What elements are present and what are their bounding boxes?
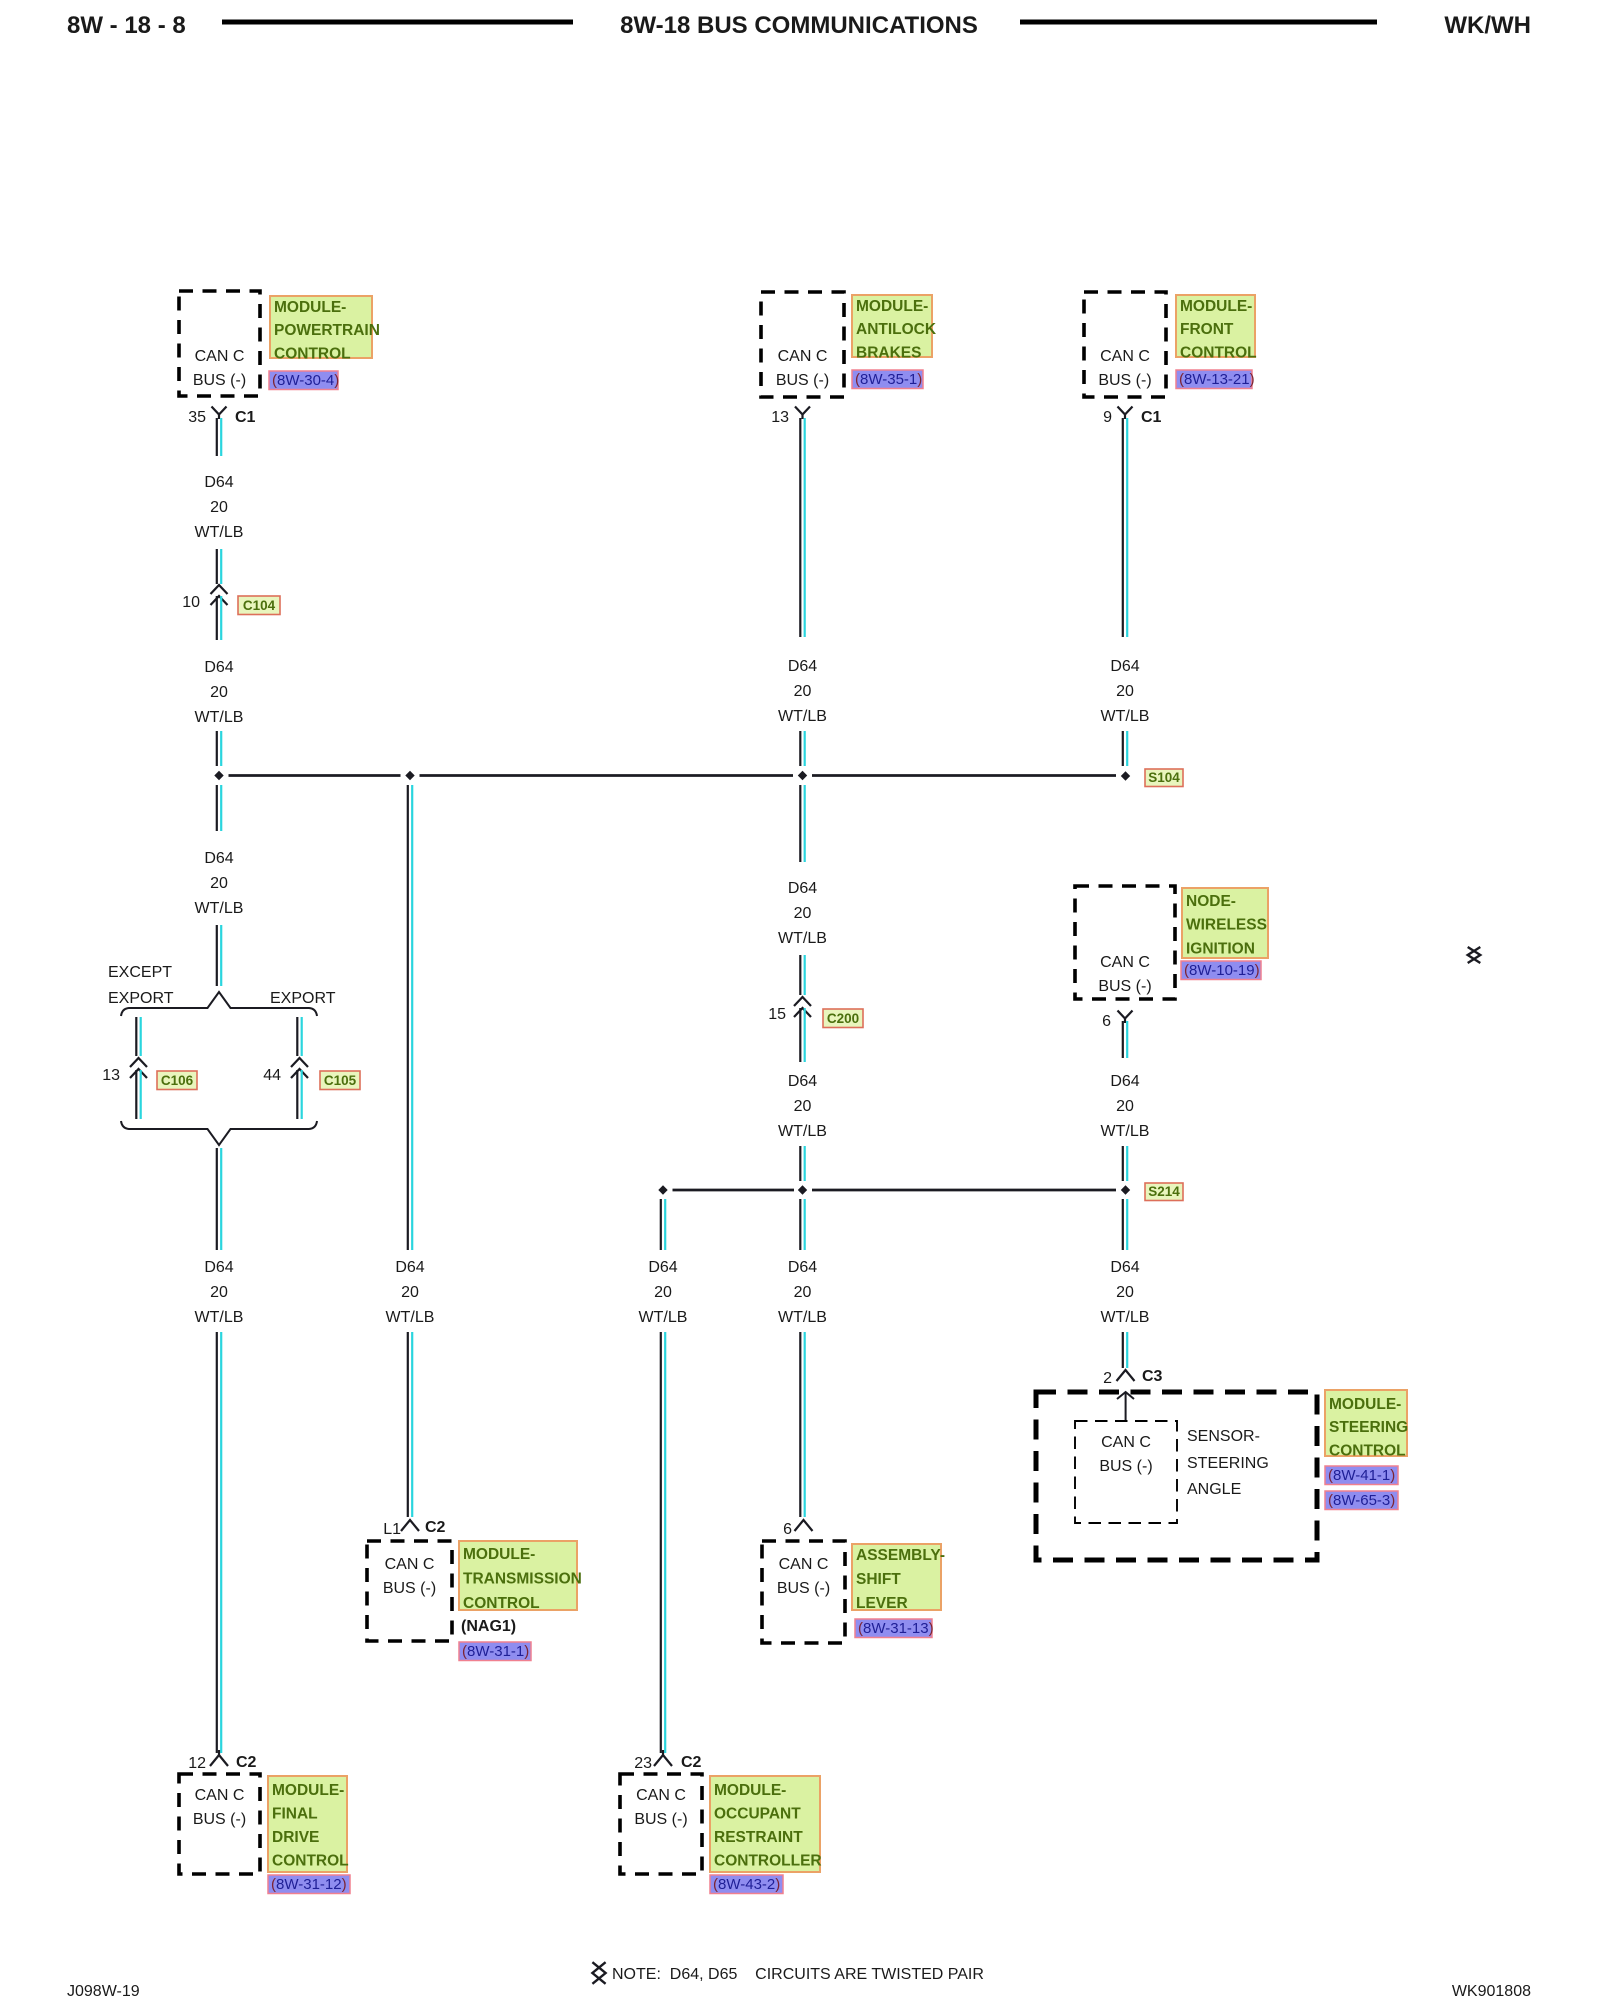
svg-text:WT/LB: WT/LB — [195, 1309, 244, 1326]
svg-text:C105: C105 — [324, 1073, 357, 1088]
splice junction node on S104 bus at col3 — [798, 771, 807, 780]
text CAN C BUS (-) in module TCM — [383, 1556, 436, 1597]
connector tag C200 — [823, 1009, 863, 1028]
svg-text:EXCEPT: EXCEPT — [108, 964, 172, 981]
svg-text:CAN C: CAN C — [195, 1787, 245, 1804]
reference label (8W-43-2) — [710, 1875, 783, 1894]
wire col1 seg7: merge to label (twisted pair D64) — [217, 1148, 221, 1250]
svg-text:23: 23 — [634, 1755, 652, 1772]
text CAN C BUS (-) in module FDCM — [193, 1787, 246, 1828]
svg-text:FINAL: FINAL — [272, 1806, 318, 1823]
svg-text:DRIVE: DRIVE — [272, 1829, 319, 1846]
svg-text:C2: C2 — [681, 1754, 702, 1771]
arrow from C3 into sensor-steering angle — [1117, 1392, 1134, 1421]
svg-text:MODULE-: MODULE- — [463, 1546, 535, 1563]
svg-text:C104: C104 — [243, 598, 276, 613]
wire col2 seg2: label to TCM connector (twisted pair D64) — [408, 1332, 412, 1517]
svg-text:WT/LB: WT/LB — [195, 900, 244, 917]
text CAN C BUS (-) in module PCM — [193, 348, 246, 389]
module steering control: outer dashed box — [1036, 1392, 1317, 1560]
wire branch EXCEPT EXPORT lower (twisted pair D64) — [136, 1070, 140, 1119]
module FDCM: dashed box MODULE-FINAL DRIVE CONTROL — [179, 1774, 260, 1874]
reference label (8W-31-13) — [855, 1619, 934, 1638]
svg-text:12: 12 — [188, 1755, 206, 1772]
svg-text:CAN C: CAN C — [778, 348, 828, 365]
wire col4 seg6: label to C3 (twisted pair D64) — [1123, 1332, 1127, 1368]
label MODULE-FRONT CONTROL — [1176, 295, 1257, 361]
svg-text:CAN C: CAN C — [385, 1556, 435, 1573]
wire col1 seg3: C104 to label (twisted pair D64) — [217, 596, 221, 640]
splice junction node on S214 bus at col3b — [658, 1185, 667, 1194]
connector tag C104 — [238, 596, 280, 615]
wire value label col1 lower: D64 20 WT/LB — [195, 850, 244, 917]
svg-text:(8W-31-13): (8W-31-13) — [858, 1620, 934, 1637]
connector symbol connector C2 of FDCM — [210, 1750, 228, 1766]
svg-text:S214: S214 — [1148, 1184, 1180, 1199]
svg-text:WT/LB: WT/LB — [1101, 708, 1150, 725]
svg-text:20: 20 — [1116, 1284, 1134, 1301]
label MODULE-FINAL DRIVE CONTROL — [268, 1776, 349, 1872]
in-line connector symbol in-line connector C106 — [130, 1058, 147, 1067]
wire value label col4 mid: D64 20 WT/LB — [1101, 1073, 1150, 1140]
svg-text:BUS (-): BUS (-) — [193, 1811, 246, 1828]
label ASSEMBLY-SHIFT LEVER — [852, 1544, 945, 1612]
svg-text:20: 20 — [794, 683, 812, 700]
wire value label col4 upper: D64 20 WT/LB — [1101, 658, 1150, 725]
svg-text:MODULE-: MODULE- — [1180, 298, 1252, 315]
wire value label col3 mid: D64 20 WT/LB — [778, 880, 827, 947]
svg-text:NODE-: NODE- — [1186, 893, 1236, 910]
svg-text:STEERING: STEERING — [1187, 1455, 1269, 1472]
connector tag C105 — [320, 1071, 360, 1090]
svg-text:D64: D64 — [788, 1259, 817, 1276]
svg-text:IGNITION: IGNITION — [1186, 940, 1255, 957]
svg-text:BUS (-): BUS (-) — [1099, 1458, 1152, 1475]
svg-text:13: 13 — [102, 1067, 120, 1084]
wire col3b seg2: label to ORC connector (twisted pair D64) — [661, 1332, 665, 1753]
label MODULE-POWERTRAIN CONTROL — [270, 296, 380, 362]
svg-text:D64: D64 — [1110, 1259, 1139, 1276]
text CAN C BUS (-) in node wireless ignition — [1098, 954, 1151, 995]
wire col3 seg4: label to C200 (twisted pair D64) — [800, 955, 804, 995]
svg-text:BUS (-): BUS (-) — [193, 372, 246, 389]
wire value label col1 mid: D64 20 WT/LB — [195, 659, 244, 726]
svg-text:CONTROL: CONTROL — [463, 1595, 540, 1612]
reference label (8W-31-1) — [459, 1642, 531, 1661]
svg-text:D64: D64 — [204, 659, 233, 676]
wire value label col3 lower: D64 20 WT/LB — [778, 1073, 827, 1140]
connector symbol connector C2 of TCM — [401, 1520, 419, 1531]
connector symbol connector of shift lever assembly — [795, 1520, 813, 1531]
svg-text:WK/WH: WK/WH — [1444, 12, 1531, 39]
svg-text:C1: C1 — [235, 409, 256, 426]
svg-text:(8W-30-4): (8W-30-4) — [272, 372, 339, 389]
wire value label col3b: D64 20 WT/LB — [639, 1259, 688, 1326]
svg-text:6: 6 — [1102, 1013, 1111, 1030]
wire col3 seg5: C200 to label (twisted pair D64) — [800, 1008, 804, 1062]
splice junction splice S214 — [1121, 1185, 1130, 1194]
splice junction node on S214 bus at col3 — [798, 1185, 807, 1194]
svg-text:8W-18 BUS COMMUNICATIONS: 8W-18 BUS COMMUNICATIONS — [620, 12, 978, 39]
svg-text:WT/LB: WT/LB — [639, 1309, 688, 1326]
svg-text:WT/LB: WT/LB — [195, 524, 244, 541]
wire col4 seg3: WIN to label (twisted pair D64) — [1123, 1021, 1127, 1058]
text CAN C BUS (-) in module ORC — [634, 1787, 687, 1828]
wire col4 seg2: label to S104 (twisted pair D64) — [1123, 731, 1127, 766]
svg-text:SENSOR-: SENSOR- — [1187, 1428, 1260, 1445]
wire col3 seg3: S104 to label (twisted pair D64) — [800, 785, 804, 862]
connector symbol connector C3 of steering control — [1117, 1370, 1135, 1381]
wire branch EXPORT lower (twisted pair D64) — [297, 1070, 301, 1119]
wire col1 seg2: label to C104 (twisted pair D64) — [217, 549, 221, 584]
svg-text:CAN C: CAN C — [779, 1556, 829, 1573]
svg-text:BUS (-): BUS (-) — [777, 1580, 830, 1597]
svg-text:WT/LB: WT/LB — [1101, 1123, 1150, 1140]
svg-text:RESTRAINT: RESTRAINT — [714, 1829, 803, 1846]
svg-text:8W - 18 - 8: 8W - 18 - 8 — [67, 12, 186, 39]
svg-text:(8W-41-1): (8W-41-1) — [1328, 1467, 1395, 1484]
svg-text:15: 15 — [768, 1006, 786, 1023]
svg-text:CAN C: CAN C — [195, 348, 245, 365]
sensor steering angle: inner dashed box — [1075, 1421, 1177, 1523]
reference label (8W-30-4) — [269, 371, 339, 390]
svg-text:WT/LB: WT/LB — [386, 1309, 435, 1326]
bus wire S104 horizontal segment 2 — [420, 774, 794, 777]
svg-text:20: 20 — [210, 875, 228, 892]
svg-text:(8W-10-19): (8W-10-19) — [1184, 962, 1260, 979]
label NODE-WIRELESS IGNITION — [1182, 888, 1268, 958]
svg-text:C2: C2 — [236, 1754, 257, 1771]
bus wire S214 horizontal segment 2 — [812, 1189, 1116, 1192]
svg-text:D64: D64 — [788, 880, 817, 897]
wire col3 seg2: label to S104 (twisted pair D64) — [800, 731, 804, 766]
svg-text:20: 20 — [1116, 1098, 1134, 1115]
svg-text:MODULE-: MODULE- — [714, 1782, 786, 1799]
svg-text:(8W-13-21): (8W-13-21) — [1179, 371, 1255, 388]
svg-text:CONTROL: CONTROL — [274, 345, 351, 362]
text CAN C BUS (-) in module FCM — [1098, 348, 1151, 389]
reference label (8W-31-12) — [268, 1875, 350, 1894]
svg-text:(8W-43-2): (8W-43-2) — [713, 1876, 780, 1893]
wire col4 seg5: S214 to label (twisted pair D64) — [1123, 1199, 1127, 1250]
svg-text:MODULE-: MODULE- — [856, 298, 928, 315]
wire value label col4 bottom: D64 20 WT/LB — [1101, 1259, 1150, 1326]
svg-text:20: 20 — [210, 499, 228, 516]
svg-text:20: 20 — [210, 1284, 228, 1301]
wire branch EXCEPT EXPORT upper (twisted pair D64) — [136, 1017, 140, 1056]
wire col3 seg6: label to S214 (twisted pair D64) — [800, 1146, 804, 1181]
label MODULE-OCCUPANT RESTRAINT CONTROLLER — [710, 1776, 822, 1872]
svg-text:13: 13 — [771, 409, 789, 426]
note symbol (twisted pair mark) right margin — [1468, 947, 1481, 963]
svg-text:20: 20 — [794, 905, 812, 922]
svg-text:(8W-65-3): (8W-65-3) — [1328, 1492, 1395, 1509]
svg-text:C1: C1 — [1141, 409, 1162, 426]
svg-text:20: 20 — [1116, 683, 1134, 700]
svg-text:C3: C3 — [1142, 1368, 1163, 1385]
svg-text:WT/LB: WT/LB — [778, 1309, 827, 1326]
bus wire S104 horizontal segment 1 — [229, 774, 401, 777]
header rule left — [222, 20, 573, 25]
text CAN C BUS (-) in assembly shift lever — [777, 1556, 830, 1597]
svg-text:SHIFT: SHIFT — [856, 1571, 901, 1588]
svg-text:LEVER: LEVER — [856, 1595, 908, 1612]
wire col3 seg1: ABS to label (twisted pair D64) — [800, 418, 804, 637]
text CAN C BUS (-) in module ABS — [776, 348, 829, 389]
svg-text:20: 20 — [654, 1284, 672, 1301]
svg-text:WIRELESS: WIRELESS — [1186, 917, 1267, 934]
svg-text:20: 20 — [401, 1284, 419, 1301]
svg-text:CAN C: CAN C — [1100, 954, 1150, 971]
module WIN: dashed box NODE-WIRELESS IGNITION — [1075, 886, 1175, 999]
connector symbol connector C1 of PCM — [212, 407, 227, 420]
reference label (8W-35-1) — [852, 370, 923, 389]
svg-text:ANGLE: ANGLE — [1187, 1481, 1241, 1498]
svg-text:2: 2 — [1103, 1370, 1112, 1387]
wire col1 seg6: label to split brace (twisted pair D64) — [217, 925, 221, 986]
wire col4 seg1: FCM to label (twisted pair D64) — [1123, 418, 1127, 637]
svg-text:WT/LB: WT/LB — [778, 708, 827, 725]
svg-text:ANTILOCK: ANTILOCK — [856, 321, 937, 338]
module shift lever: dashed box ASSEMBLY-SHIFT LEVER — [762, 1541, 845, 1643]
splice tag S104 — [1145, 769, 1183, 787]
svg-text:CONTROLLER: CONTROLLER — [714, 1853, 822, 1870]
in-line connector symbol in-line connector C105 — [291, 1058, 308, 1067]
wire branch EXPORT upper (twisted pair D64) — [297, 1017, 301, 1056]
splice tag S214 — [1145, 1183, 1183, 1201]
connector tag C106 — [157, 1071, 197, 1090]
svg-text:D64: D64 — [1110, 658, 1139, 675]
svg-text:D64: D64 — [788, 1073, 817, 1090]
svg-text:10: 10 — [182, 594, 200, 611]
module ORC: dashed box MODULE-OCCUPANT RESTRAINT CONTROLLER — [620, 1774, 702, 1874]
svg-text:(8W-35-1): (8W-35-1) — [855, 371, 922, 388]
wire col3 seg8: label to shift lever connector (twisted pair D64) — [800, 1332, 804, 1517]
svg-text:20: 20 — [794, 1284, 812, 1301]
svg-text:EXPORT: EXPORT — [108, 990, 174, 1007]
reference label (8W-13-21) — [1176, 370, 1255, 389]
svg-text:(8W-31-1): (8W-31-1) — [462, 1643, 529, 1660]
svg-text:CONTROL: CONTROL — [272, 1853, 349, 1870]
reference label (8W-65-3) — [1325, 1491, 1398, 1510]
svg-text:20: 20 — [794, 1098, 812, 1115]
wire col1 seg1: PCM pin35 to label (twisted pair D64) — [217, 418, 221, 456]
svg-text:STEERING: STEERING — [1329, 1419, 1408, 1436]
wire col1 seg4: label to splice S104 (twisted pair D64) — [217, 731, 221, 766]
note symbol (twisted pair mark) note — [592, 1962, 605, 1984]
svg-text:(8W-31-12): (8W-31-12) — [271, 1876, 347, 1893]
svg-text:CAN C: CAN C — [1101, 1434, 1151, 1451]
label MODULE-TRANSMISSION CONTROL — [459, 1541, 582, 1612]
svg-text:EXPORT: EXPORT — [270, 990, 336, 1007]
module TCM: dashed box MODULE-TRANSMISSION CONTROL — [367, 1541, 452, 1641]
svg-text:D64: D64 — [1110, 1073, 1139, 1090]
svg-text:J098W-19: J098W-19 — [67, 1983, 140, 2000]
svg-text:MODULE-: MODULE- — [272, 1782, 344, 1799]
svg-text:D64: D64 — [788, 658, 817, 675]
svg-text:C2: C2 — [425, 1519, 446, 1536]
svg-text:MODULE-: MODULE- — [1329, 1396, 1401, 1413]
svg-text:BRAKES: BRAKES — [856, 344, 921, 361]
svg-text:TRANSMISSION: TRANSMISSION — [463, 1571, 582, 1588]
svg-text:CONTROL: CONTROL — [1329, 1442, 1406, 1459]
svg-text:9: 9 — [1103, 409, 1112, 426]
svg-text:ASSEMBLY-: ASSEMBLY- — [856, 1547, 945, 1564]
wire value label col3 upper: D64 20 WT/LB — [778, 658, 827, 725]
svg-text:CAN C: CAN C — [1100, 348, 1150, 365]
connector symbol connector C2 of ORC — [654, 1750, 672, 1766]
svg-text:WT/LB: WT/LB — [778, 1123, 827, 1140]
wire value label col3 bottom: D64 20 WT/LB — [778, 1259, 827, 1326]
text SENSOR-STEERING ANGLE — [1187, 1428, 1269, 1498]
wire col1 seg5: S104 to label (twisted pair D64) — [217, 785, 221, 831]
svg-text:FRONT: FRONT — [1180, 321, 1234, 338]
svg-text:WT/LB: WT/LB — [1101, 1309, 1150, 1326]
brace split to C106/C105 branches — [121, 992, 317, 1016]
in-line connector symbol in-line connector C200 — [794, 997, 811, 1006]
svg-text:D64: D64 — [648, 1259, 677, 1276]
svg-text:MODULE-: MODULE- — [274, 299, 346, 316]
connector symbol connector C1 of FCM — [1118, 407, 1133, 420]
svg-text:D64: D64 — [395, 1259, 424, 1276]
wire col3b seg1: S214 to label (twisted pair D64) — [661, 1199, 665, 1250]
wire col3 seg7: S214 to label (twisted pair D64) — [800, 1199, 804, 1250]
svg-text:6: 6 — [783, 1521, 792, 1538]
wire value label col1 upper: D64 20 WT/LB — [195, 474, 244, 541]
svg-text:S104: S104 — [1148, 770, 1180, 785]
svg-text:20: 20 — [210, 684, 228, 701]
svg-text:44: 44 — [263, 1067, 281, 1084]
splice junction node on S104 bus at col1 — [214, 771, 223, 780]
bus wire S214 horizontal segment 1 — [673, 1189, 795, 1192]
svg-text:BUS (-): BUS (-) — [776, 372, 829, 389]
wire col4 seg4: label to S214 (twisted pair D64) — [1123, 1146, 1127, 1181]
module ABS: dashed box MODULE-ANTILOCK BRAKES — [761, 292, 844, 397]
svg-text:(NAG1): (NAG1) — [461, 1618, 516, 1635]
svg-text:OCCUPANT: OCCUPANT — [714, 1806, 801, 1823]
label MODULE-ANTILOCK BRAKES — [852, 295, 937, 361]
svg-text:C200: C200 — [827, 1011, 859, 1026]
header rule right — [1020, 20, 1377, 25]
bus wire S104 horizontal segment 3 — [812, 774, 1116, 777]
svg-text:D64: D64 — [204, 1259, 233, 1276]
in-line connector symbol in-line connector C104 — [211, 585, 228, 594]
svg-text:35: 35 — [188, 409, 206, 426]
svg-text:BUS (-): BUS (-) — [383, 1580, 436, 1597]
module FCM: dashed box MODULE-FRONT CONTROL — [1084, 292, 1166, 397]
module PCM: dashed box MODULE-POWERTRAIN CONTROL — [179, 291, 260, 396]
svg-text:BUS (-): BUS (-) — [1098, 372, 1151, 389]
text CAN C BUS (-) in sensor steering angle — [1099, 1434, 1152, 1475]
svg-text:CAN C: CAN C — [636, 1787, 686, 1804]
connector symbol connector of ABS — [795, 407, 810, 420]
brace merge from C106/C105 branches — [121, 1121, 317, 1145]
wire col1 seg8: label to FDCM connector (twisted pair D64) — [217, 1332, 221, 1753]
reference label (8W-10-19) — [1181, 961, 1261, 980]
reference label (8W-41-1) — [1325, 1466, 1398, 1485]
svg-text:POWERTRAIN: POWERTRAIN — [274, 322, 380, 339]
svg-text:NOTE: D64, D65 CIRCUITS AR: NOTE: D64, D65 CIRCUITS ARE TWISTED PAIR — [612, 1966, 984, 1983]
svg-text:L1: L1 — [383, 1521, 401, 1538]
svg-text:CONTROL: CONTROL — [1180, 344, 1257, 361]
splice junction splice S104 — [1121, 771, 1130, 780]
wire value label col1 bottom: D64 20 WT/LB — [195, 1259, 244, 1326]
svg-text:D64: D64 — [204, 474, 233, 491]
svg-text:D64: D64 — [204, 850, 233, 867]
svg-text:C106: C106 — [161, 1073, 194, 1088]
wire value label col2: D64 20 WT/LB — [386, 1259, 435, 1326]
svg-text:WK901808: WK901808 — [1452, 1983, 1531, 2000]
svg-text:BUS (-): BUS (-) — [1098, 978, 1151, 995]
connector symbol connector of WIN — [1118, 1011, 1133, 1024]
svg-text:BUS (-): BUS (-) — [634, 1811, 687, 1828]
svg-text:WT/LB: WT/LB — [195, 709, 244, 726]
wire col2 seg1: S104 to label (twisted pair D64) — [408, 785, 412, 1250]
label MODULE-STEERING CONTROL — [1325, 1390, 1408, 1459]
splice junction node on S104 bus at col2 — [405, 771, 414, 780]
svg-text:WT/LB: WT/LB — [778, 930, 827, 947]
